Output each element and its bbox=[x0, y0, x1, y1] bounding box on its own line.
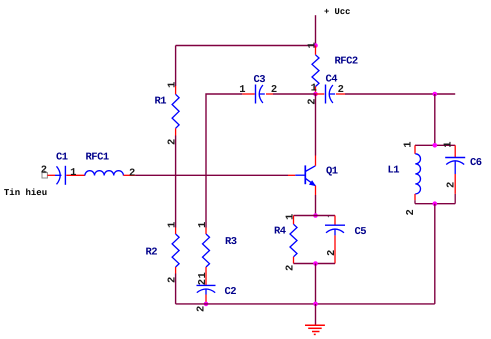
svg-text:2: 2 bbox=[338, 84, 344, 96]
inductor RFC2 (drawn as zigzag) bbox=[312, 46, 319, 95]
svg-text:1: 1 bbox=[197, 272, 209, 278]
svg-text:1: 1 bbox=[306, 42, 318, 48]
svg-text:C3: C3 bbox=[254, 74, 266, 86]
label C3 bbox=[254, 74, 266, 86]
capacitor C5 bbox=[325, 216, 345, 264]
inductor RFC1 bbox=[85, 171, 135, 176]
label C4 bbox=[326, 74, 338, 86]
wire C4 to tank (top right) bbox=[345, 93, 455, 95]
svg-text:2: 2 bbox=[445, 182, 457, 188]
resistor R3 bbox=[203, 228, 210, 286]
capacitor C3 bbox=[242, 85, 273, 104]
pin 1 of R3 (rotated) bbox=[197, 222, 209, 228]
svg-text:C2: C2 bbox=[225, 286, 237, 298]
capacitor C2 bbox=[197, 285, 216, 304]
pin 2 of RFC2 (rotated) bbox=[306, 98, 318, 104]
svg-text:C1: C1 bbox=[56, 152, 68, 164]
wire R4/C5 top bar bbox=[294, 215, 336, 217]
svg-text:1: 1 bbox=[443, 141, 455, 147]
pin 1 of C3 bbox=[239, 84, 245, 96]
pin 1 of C4 bbox=[311, 83, 317, 95]
junction emitter network bottom bbox=[313, 261, 318, 266]
svg-text:Tin hieu: Tin hieu bbox=[4, 188, 47, 198]
label R2 bbox=[146, 247, 158, 259]
junction emitter node bbox=[313, 213, 318, 218]
label C1 bbox=[56, 152, 68, 164]
svg-text:+ Ucc: + Ucc bbox=[324, 7, 350, 17]
junction Vcc/RFC2 top bbox=[313, 43, 318, 48]
svg-text:1: 1 bbox=[284, 214, 296, 220]
pin 2 of port bbox=[41, 165, 47, 177]
label C2 bbox=[225, 286, 237, 298]
label RFC1 bbox=[86, 152, 109, 164]
svg-text:RFC1: RFC1 bbox=[86, 152, 109, 164]
wire tank feed vertical bbox=[434, 94, 436, 145]
wire C3 left branch (horizontal + vertical down to R3) bbox=[206, 94, 242, 228]
junction tank feed top bbox=[433, 92, 438, 97]
label L1 bbox=[388, 165, 400, 177]
capacitor C4 bbox=[316, 85, 346, 104]
wire tank top bar bbox=[415, 144, 455, 146]
pin 2 of C3 bbox=[271, 84, 277, 96]
junction collector node bbox=[313, 92, 318, 97]
junction C2 bottom bbox=[204, 302, 209, 307]
resistor R4 bbox=[290, 216, 297, 264]
pin 2 of C4 bbox=[338, 84, 344, 96]
inductor L1 bbox=[415, 145, 421, 203]
pin 1 of C2 (rotated) bbox=[197, 272, 209, 278]
label Tin hieu bbox=[4, 188, 47, 198]
svg-text:2: 2 bbox=[166, 139, 178, 145]
label RFC2 bbox=[335, 56, 358, 68]
svg-text:1: 1 bbox=[166, 82, 178, 88]
svg-text:RFC2: RFC2 bbox=[335, 56, 358, 68]
wire top horizontal to R1 bbox=[176, 45, 316, 47]
label R1 bbox=[155, 96, 167, 108]
pin 1 of C1 bbox=[70, 167, 76, 179]
pin 1 of L1 (rotated) bbox=[402, 141, 414, 147]
junction tank bottom bbox=[433, 201, 438, 206]
pin 2 of R4 (rotated) bbox=[284, 265, 296, 271]
svg-text:1: 1 bbox=[311, 83, 317, 95]
svg-text:2: 2 bbox=[129, 168, 135, 180]
svg-text:L1: L1 bbox=[388, 165, 400, 177]
wire base pin stub bbox=[288, 174, 295, 176]
wire left rail R1 to R2 bbox=[175, 136, 177, 228]
svg-text:2: 2 bbox=[306, 98, 318, 104]
wire signal to base bbox=[135, 174, 288, 176]
label Q1 bbox=[326, 166, 338, 178]
wire tank bottom bar bbox=[415, 203, 455, 205]
resistor R2 bbox=[172, 228, 179, 274]
label C6 bbox=[470, 157, 482, 169]
wire left rail R2 to bottom bbox=[175, 274, 177, 304]
wire Vcc vertical bbox=[315, 15, 317, 45]
ground bbox=[305, 304, 325, 335]
wire tank bottom to ground rail bbox=[434, 204, 436, 304]
svg-text:1: 1 bbox=[197, 222, 209, 228]
label C5 bbox=[355, 226, 367, 238]
capacitor C1 bbox=[47, 166, 85, 185]
svg-text:1: 1 bbox=[239, 84, 245, 96]
wire emitter network to ground rail bbox=[315, 264, 317, 304]
svg-text:R3: R3 bbox=[225, 236, 237, 248]
svg-text:2: 2 bbox=[41, 165, 47, 177]
svg-text:C6: C6 bbox=[470, 157, 482, 169]
capacitor C6 bbox=[445, 145, 465, 203]
pin 1 of R2 (rotated) bbox=[166, 222, 178, 228]
svg-text:1: 1 bbox=[166, 222, 178, 228]
pin 2 of R3 (rotated) bbox=[197, 279, 209, 285]
pin 2 of RFC1 bbox=[129, 168, 135, 180]
resistor R1 bbox=[172, 46, 179, 136]
svg-text:2: 2 bbox=[197, 279, 209, 285]
svg-text:1: 1 bbox=[402, 141, 414, 147]
svg-text:2: 2 bbox=[166, 277, 178, 283]
wire C3 to collector node bbox=[273, 93, 316, 95]
pin 1 of C5 (rotated) bbox=[328, 216, 329, 217]
pin 2 of C5 (rotated) bbox=[326, 250, 338, 256]
pin 1 of R1 (rotated) bbox=[166, 82, 178, 88]
wire emitter down bbox=[315, 195, 317, 216]
node +Ucc label bbox=[324, 7, 350, 17]
svg-text:2: 2 bbox=[196, 306, 208, 312]
label R4 bbox=[274, 226, 286, 238]
pin 1 of RFC2 (rotated) bbox=[306, 42, 318, 48]
wire bottom rail bbox=[176, 303, 435, 305]
svg-text:R1: R1 bbox=[155, 96, 167, 108]
wire emitter stub bbox=[315, 186, 317, 195]
pin 2 of L1 (rotated) bbox=[405, 209, 417, 215]
svg-text:1: 1 bbox=[70, 167, 76, 179]
wire collector to node bbox=[315, 94, 317, 156]
svg-text:2: 2 bbox=[326, 250, 338, 256]
svg-text:Q1: Q1 bbox=[326, 166, 338, 178]
label R3 bbox=[225, 236, 237, 248]
svg-text:C5: C5 bbox=[355, 226, 367, 238]
pin 2 of C6 (rotated) bbox=[445, 182, 457, 188]
svg-text:R4: R4 bbox=[274, 226, 286, 238]
svg-text:C4: C4 bbox=[326, 74, 338, 86]
wire R4/C5 bottom bar bbox=[294, 263, 336, 265]
transistor Q1 bbox=[295, 165, 315, 185]
svg-text:2: 2 bbox=[284, 265, 296, 271]
port Tin hieu bbox=[42, 170, 47, 178]
junction tank top bbox=[433, 143, 438, 148]
wire collector stub bbox=[315, 156, 317, 166]
svg-text:R2: R2 bbox=[146, 247, 158, 259]
pin 1 of C6 (rotated) bbox=[443, 141, 455, 147]
pin 1 of R4 (rotated) bbox=[284, 214, 296, 220]
svg-text:2: 2 bbox=[405, 209, 417, 215]
junction ground node bbox=[313, 302, 318, 307]
pin 2 of R2 (rotated) bbox=[166, 277, 178, 283]
pin 2 of C2 (rotated) bbox=[196, 306, 208, 312]
pin 2 of R1 (rotated) bbox=[166, 139, 178, 145]
